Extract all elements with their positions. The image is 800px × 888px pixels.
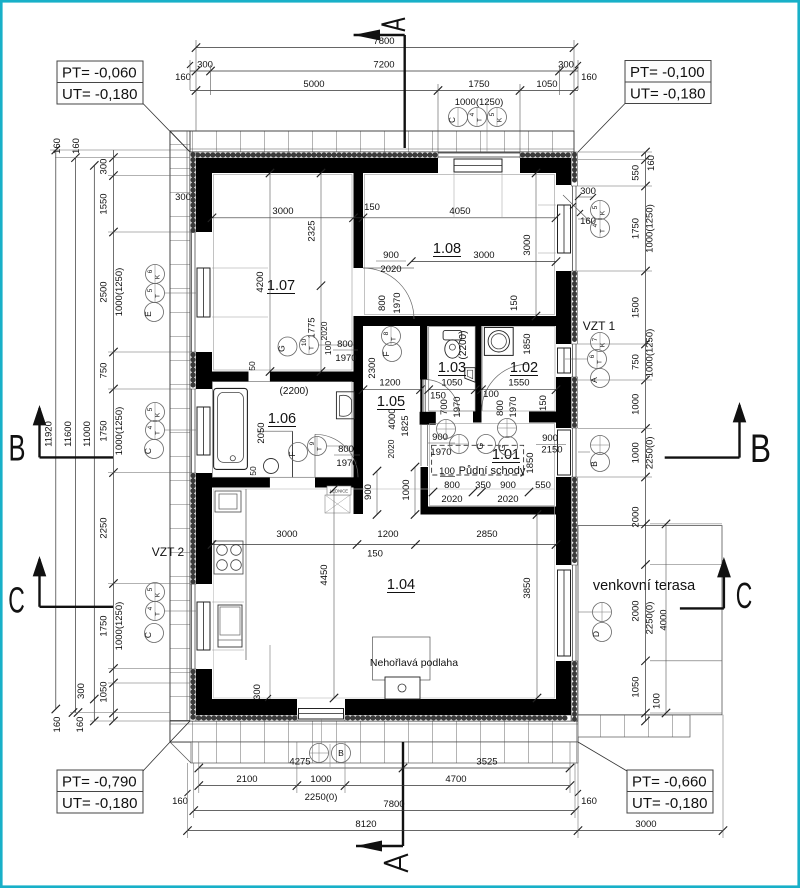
svg-text:4000: 4000 xyxy=(659,609,670,630)
svg-text:7800: 7800 xyxy=(383,799,404,810)
svg-text:T: T xyxy=(309,346,316,350)
interior wall 1.03/1.02 bottom middle stub xyxy=(473,412,482,423)
svg-text:160: 160 xyxy=(172,796,188,807)
marker circles terrace D group xyxy=(593,603,612,622)
svg-text:150: 150 xyxy=(364,202,380,213)
svg-text:800: 800 xyxy=(495,400,506,416)
svg-text:E: E xyxy=(143,311,153,317)
svg-text:PT= -0,060: PT= -0,060 xyxy=(62,65,137,82)
dimension line bottom 8120 xyxy=(188,830,579,832)
svg-text:1200: 1200 xyxy=(377,529,398,540)
room finish outline 1.06 bathroom xyxy=(213,382,353,478)
svg-text:1825: 1825 xyxy=(400,415,411,436)
interior wall 1.07/1.08 vertical lower xyxy=(354,319,364,514)
svg-text:100: 100 xyxy=(323,341,333,355)
dimension bottom right 3000 xyxy=(578,830,723,832)
svg-text:300: 300 xyxy=(76,683,87,699)
lednice label box xyxy=(327,486,351,495)
svg-text:160: 160 xyxy=(71,138,82,154)
svg-text:1500: 1500 xyxy=(631,297,642,318)
svg-text:800: 800 xyxy=(337,339,353,350)
svg-text:K: K xyxy=(155,592,162,597)
marker circles room 1.01 xyxy=(437,420,456,439)
svg-text:2020: 2020 xyxy=(319,321,329,340)
svg-text:4275: 4275 xyxy=(289,757,310,768)
svg-text:4: 4 xyxy=(469,112,476,116)
exterior wall top-right segment xyxy=(520,158,571,173)
room finish outline 1.04 xyxy=(214,489,555,698)
svg-text:2250(0): 2250(0) xyxy=(645,602,656,635)
svg-text:700: 700 xyxy=(439,399,450,415)
svg-text:1550: 1550 xyxy=(99,193,110,214)
svg-text:F: F xyxy=(381,351,391,356)
svg-text:8: 8 xyxy=(383,331,390,335)
insulation hatch bottom xyxy=(196,715,297,721)
svg-text:2020: 2020 xyxy=(386,439,396,458)
svg-text:300: 300 xyxy=(175,192,191,203)
marker circles top window C 4T 5K xyxy=(449,108,468,127)
svg-text:1000: 1000 xyxy=(310,774,331,785)
svg-text:800: 800 xyxy=(338,444,354,455)
svg-text:2150: 2150 xyxy=(541,445,562,456)
dim vertical 4200 room 1.07 xyxy=(269,173,271,372)
svg-text:1050: 1050 xyxy=(99,681,110,702)
window jamb extension lines top window xyxy=(453,173,455,217)
svg-text:2000: 2000 xyxy=(631,600,642,621)
insulation hatch left xyxy=(190,152,196,232)
marker circles right B group xyxy=(591,436,610,455)
svg-text:1970: 1970 xyxy=(335,353,356,364)
svg-text:160: 160 xyxy=(175,72,191,83)
exterior wall right segment 2 xyxy=(556,377,571,428)
svg-text:1000: 1000 xyxy=(631,394,642,415)
svg-text:350: 350 xyxy=(475,480,491,491)
corner miter top-left xyxy=(170,131,190,152)
svg-text:1970: 1970 xyxy=(508,396,519,417)
dim 1000 vertical corridor bottom xyxy=(414,467,416,515)
dim 1050 room 1.03 xyxy=(429,389,476,391)
svg-text:T: T xyxy=(317,447,324,451)
marker circles left kitchen window C group xyxy=(146,583,165,602)
svg-text:A: A xyxy=(589,377,599,383)
svg-text:D: D xyxy=(591,631,601,637)
svg-text:160: 160 xyxy=(75,717,86,733)
terrace outline xyxy=(578,526,722,715)
interior wall 1.07/1.08 vertical upper xyxy=(354,173,364,268)
interior wall bathroom bottom left part xyxy=(211,477,270,487)
svg-text:2250: 2250 xyxy=(99,517,110,538)
svg-text:1850: 1850 xyxy=(525,452,536,473)
svg-text:160: 160 xyxy=(581,72,597,83)
svg-text:1000: 1000 xyxy=(401,479,412,500)
svg-text:G: G xyxy=(475,443,485,450)
svg-text:5: 5 xyxy=(147,288,154,292)
dim line kitchen 3000-1200-2850 xyxy=(212,544,556,546)
svg-text:2020: 2020 xyxy=(380,264,401,275)
brick veneer band bottom xyxy=(170,721,578,742)
svg-text:VZT 2: VZT 2 xyxy=(152,545,185,559)
svg-text:1050: 1050 xyxy=(536,79,557,90)
svg-text:900: 900 xyxy=(500,480,516,491)
section mark C right xyxy=(680,607,724,609)
marker circles right window 5K 4T xyxy=(591,201,610,220)
svg-text:T: T xyxy=(597,360,604,364)
marker circles right 7K 6T A xyxy=(591,333,610,352)
fridge appliance xyxy=(218,605,242,647)
dim vertical 3000 room 1.08 xyxy=(535,173,537,316)
svg-text:C: C xyxy=(448,117,457,123)
interior wall 1.01 bottom horizontal xyxy=(428,507,556,515)
brick veneer band top xyxy=(170,131,574,152)
svg-text:5: 5 xyxy=(489,112,496,116)
svg-text:160: 160 xyxy=(52,717,63,733)
svg-text:900: 900 xyxy=(363,484,374,500)
dimension chain right detailed xyxy=(645,152,647,721)
dimension line bottom 4275-3525 xyxy=(199,767,570,769)
door arc 1.01 to 1.02 xyxy=(482,364,530,412)
room finish outline 1.08 xyxy=(365,175,555,315)
svg-text:1970: 1970 xyxy=(430,447,451,458)
svg-text:100: 100 xyxy=(652,693,663,709)
exterior wall top-left segment xyxy=(196,158,438,173)
kitchen sink xyxy=(215,491,241,512)
svg-text:2020: 2020 xyxy=(441,494,462,505)
interior wall bathroom bottom right part xyxy=(315,477,354,487)
extension lines right xyxy=(578,151,652,153)
svg-text:800: 800 xyxy=(444,480,460,491)
svg-text:4000: 4000 xyxy=(387,408,398,429)
svg-text:2000: 2000 xyxy=(631,506,642,527)
svg-text:2500: 2500 xyxy=(99,281,110,302)
svg-text:T: T xyxy=(155,294,162,298)
svg-text:(2200): (2200) xyxy=(280,386,309,397)
svg-text:T: T xyxy=(155,431,162,435)
svg-text:F: F xyxy=(287,451,297,456)
svg-text:3000: 3000 xyxy=(635,819,656,830)
svg-text:2250(0): 2250(0) xyxy=(305,792,338,803)
svg-text:4700: 4700 xyxy=(445,774,466,785)
svg-text:1750: 1750 xyxy=(631,218,642,239)
svg-text:750: 750 xyxy=(631,354,642,370)
svg-text:VZT 1: VZT 1 xyxy=(583,319,616,333)
svg-text:K: K xyxy=(600,210,607,215)
attic stair dashed rectangle xyxy=(432,445,524,475)
svg-text:3000: 3000 xyxy=(272,206,293,217)
dimension line top 5000-1750-1050 xyxy=(190,90,578,92)
svg-text:100: 100 xyxy=(439,466,455,477)
svg-text:venkovní terasa: venkovní terasa xyxy=(593,578,696,594)
svg-text:1550: 1550 xyxy=(508,378,529,389)
kitchen counter edge xyxy=(245,489,247,660)
exterior wall left segment 4 xyxy=(196,669,212,715)
svg-text:C: C xyxy=(143,448,153,454)
fireplace floor rectangle xyxy=(373,637,431,680)
dimension line bottom 7800 xyxy=(194,810,575,812)
svg-text:10: 10 xyxy=(301,339,308,347)
svg-text:4050: 4050 xyxy=(449,206,470,217)
svg-text:1.03: 1.03 xyxy=(438,360,466,376)
interior wall 1.03 left vertical xyxy=(420,316,427,380)
svg-text:1.05: 1.05 xyxy=(377,394,405,410)
svg-text:3850: 3850 xyxy=(522,577,533,598)
svg-text:160: 160 xyxy=(581,796,597,807)
svg-text:300: 300 xyxy=(580,186,596,197)
svg-text:550: 550 xyxy=(535,480,551,491)
svg-text:B: B xyxy=(338,748,344,758)
svg-text:PT= -0,660: PT= -0,660 xyxy=(632,774,707,791)
svg-text:900: 900 xyxy=(383,250,399,261)
interior wall 1.03 bottom stub xyxy=(420,412,436,425)
svg-text:50: 50 xyxy=(248,466,258,476)
svg-text:900: 900 xyxy=(542,433,558,444)
level box bottom-right PT/UT xyxy=(627,770,713,792)
svg-text:K: K xyxy=(600,342,607,347)
marker circles F 8T corridor xyxy=(382,327,401,346)
svg-text:K: K xyxy=(155,412,162,417)
door opening 1.05 to 1.01 xyxy=(420,424,422,466)
interior wall 1.02 bottom right xyxy=(529,412,556,423)
interior wall bathroom top right part xyxy=(270,372,354,383)
dim line room 1.07/1.08 tops xyxy=(212,217,556,219)
svg-text:9: 9 xyxy=(309,441,316,445)
svg-text:UT= -0,180: UT= -0,180 xyxy=(630,86,705,103)
exterior wall right segment 1 xyxy=(556,271,571,344)
svg-text:7: 7 xyxy=(592,337,599,341)
svg-text:PT= -0,790: PT= -0,790 xyxy=(62,774,137,791)
dim 1200 corridor xyxy=(363,389,421,391)
svg-text:K: K xyxy=(155,274,162,279)
door arc bathroom 1.06 xyxy=(315,434,358,477)
svg-text:1850: 1850 xyxy=(522,333,533,354)
svg-text:1050: 1050 xyxy=(441,378,462,389)
svg-text:5000: 5000 xyxy=(303,79,324,90)
svg-text:2020: 2020 xyxy=(497,494,518,505)
svg-text:3525: 3525 xyxy=(476,757,497,768)
door arc 1.01 to 1.03 xyxy=(425,380,460,415)
dimension chain 11600 left xyxy=(75,158,77,713)
door arc 1.07 to 1.08 area xyxy=(363,268,414,319)
apron band below bottom wall xyxy=(191,742,578,763)
svg-text:6: 6 xyxy=(589,354,596,358)
toilet 1.03 xyxy=(443,331,462,340)
svg-text:2050: 2050 xyxy=(256,422,267,443)
stool circle bathroom xyxy=(264,459,279,474)
svg-text:1750: 1750 xyxy=(468,79,489,90)
room finish outline 1.07 xyxy=(214,175,353,371)
entrance door bottom wall (1000) xyxy=(299,709,344,720)
svg-text:1000(1250): 1000(1250) xyxy=(114,268,125,317)
marker circles left bathroom window C group xyxy=(146,403,165,422)
section mark A top xyxy=(354,34,405,36)
dimension chain 11920 left xyxy=(55,150,57,709)
dimension chain 11000 left xyxy=(93,165,95,721)
level box top-right PT/UT xyxy=(625,61,711,83)
exterior wall left segment 1 xyxy=(196,158,212,232)
svg-text:4: 4 xyxy=(147,606,154,610)
dim line 3000 room 1.08 lower xyxy=(411,261,556,263)
window jamb extension lines right window 1.08 xyxy=(538,204,556,206)
svg-text:5: 5 xyxy=(147,587,154,591)
exterior wall left segment 2 xyxy=(196,352,212,389)
svg-text:150: 150 xyxy=(367,549,383,560)
svg-text:B: B xyxy=(750,427,771,471)
window jamb extension lines left window 1.07 xyxy=(212,267,268,269)
svg-text:4200: 4200 xyxy=(255,271,266,292)
svg-text:C: C xyxy=(143,632,153,638)
interior wall 1.03/1.02 vertical xyxy=(475,322,482,412)
svg-text:800: 800 xyxy=(377,295,388,311)
svg-text:B: B xyxy=(589,461,599,467)
dim 1550 room 1.02 xyxy=(482,389,557,391)
window W4 right wall (1000/1250) xyxy=(572,186,574,271)
svg-text:T: T xyxy=(600,229,607,233)
exterior wall left segment 3 xyxy=(196,473,212,584)
svg-text:1000(1250): 1000(1250) xyxy=(645,329,656,378)
svg-text:2100: 2100 xyxy=(236,774,257,785)
dim vertical 4450 room 1.04 xyxy=(333,489,335,698)
marker circles left window E group xyxy=(146,265,165,284)
svg-text:1000(1250): 1000(1250) xyxy=(114,407,125,456)
svg-text:1970: 1970 xyxy=(336,458,357,469)
svg-text:150: 150 xyxy=(509,295,520,311)
dim vertical 3850 room 1.04 right xyxy=(536,515,538,699)
svg-text:(2200): (2200) xyxy=(458,331,469,360)
svg-text:1.04: 1.04 xyxy=(387,577,415,593)
svg-text:3000: 3000 xyxy=(522,234,533,255)
exterior wall right segment 4 xyxy=(556,661,571,715)
svg-text:5: 5 xyxy=(592,205,599,209)
svg-text:2250(0): 2250(0) xyxy=(645,436,656,469)
dimension line top 300-7200-300 xyxy=(190,70,578,72)
washing machine 1.02 xyxy=(484,328,513,356)
cooktop 4 rings xyxy=(214,541,243,574)
svg-text:PT= -0,100: PT= -0,100 xyxy=(630,64,705,81)
svg-text:T: T xyxy=(391,337,398,341)
room finish outline 1.02 xyxy=(483,327,556,412)
svg-text:750: 750 xyxy=(99,363,110,379)
svg-text:11600: 11600 xyxy=(63,421,74,447)
svg-text:1970: 1970 xyxy=(452,396,463,417)
svg-text:Nehořlavá podlaha: Nehořlavá podlaha xyxy=(370,657,458,669)
svg-text:3000: 3000 xyxy=(276,529,297,540)
svg-text:1.06: 1.06 xyxy=(268,411,296,427)
room finish outline 1.03 wc xyxy=(429,327,476,412)
dimension line bottom 2100-1000-4700 xyxy=(199,785,570,787)
level box top-left PT/UT xyxy=(57,61,143,83)
window W2 left wall bathroom xyxy=(191,389,193,473)
svg-text:K: K xyxy=(497,117,504,122)
svg-text:1050: 1050 xyxy=(631,676,642,697)
svg-text:B: B xyxy=(9,428,26,469)
shower partition line xyxy=(292,431,294,477)
marker circles bottom B group xyxy=(310,744,329,763)
window W3 left wall kitchen xyxy=(191,584,193,669)
svg-text:C: C xyxy=(8,580,25,621)
svg-text:100: 100 xyxy=(483,389,499,400)
right 4000 dim line xyxy=(665,524,667,713)
svg-text:1.02: 1.02 xyxy=(510,360,538,376)
dim 2850 terrace vertical xyxy=(529,515,531,699)
level box bottom-left PT/UT xyxy=(57,770,143,792)
door D1 right wall to outside xyxy=(572,428,574,477)
terrace edging band xyxy=(578,715,690,737)
svg-text:1750: 1750 xyxy=(99,615,110,636)
svg-text:300: 300 xyxy=(99,159,110,175)
sliding door D2 right wall to terrace (2000) xyxy=(572,565,574,661)
extension lines top xyxy=(195,40,197,131)
insulation hatch right xyxy=(572,152,578,186)
svg-text:G: G xyxy=(277,345,287,352)
fridge niche cross box xyxy=(325,495,350,513)
svg-text:G: G xyxy=(497,445,507,452)
svg-text:11000: 11000 xyxy=(82,421,93,447)
section mark B left xyxy=(40,456,114,458)
window W5 right wall xyxy=(572,344,574,377)
svg-text:1.07: 1.07 xyxy=(267,278,295,294)
svg-text:2325: 2325 xyxy=(307,220,318,241)
exterior wall top-right corner block xyxy=(556,158,571,185)
svg-text:550: 550 xyxy=(631,165,642,181)
svg-text:1000: 1000 xyxy=(631,442,642,463)
svg-text:5: 5 xyxy=(147,407,154,411)
svg-text:2300: 2300 xyxy=(367,357,378,378)
svg-text:T: T xyxy=(477,118,484,122)
interior wall bathroom top left part xyxy=(211,372,248,383)
svg-text:160: 160 xyxy=(646,155,657,171)
section mark C left xyxy=(40,606,114,608)
svg-text:Půdní schody: Půdní schody xyxy=(459,465,526,477)
extension lines bottom xyxy=(187,763,189,838)
corner miter bottom-left xyxy=(170,721,190,742)
svg-text:UT= -0,180: UT= -0,180 xyxy=(62,795,137,812)
svg-text:4450: 4450 xyxy=(319,564,330,585)
svg-text:UT= -0,180: UT= -0,180 xyxy=(62,86,137,103)
svg-text:7200: 7200 xyxy=(373,60,394,71)
insulation hatch top xyxy=(190,152,438,158)
svg-text:160: 160 xyxy=(52,138,63,154)
section mark B right xyxy=(665,456,740,458)
corner sink 1.03 xyxy=(465,368,475,383)
svg-text:UT= -0,180: UT= -0,180 xyxy=(632,795,707,812)
brick veneer band left xyxy=(170,131,190,742)
room finish outline 1.01 xyxy=(430,424,555,506)
marker circles G 10T room 1.07 xyxy=(278,337,297,356)
svg-text:8120: 8120 xyxy=(355,819,376,830)
svg-text:1.08: 1.08 xyxy=(433,241,461,257)
svg-text:300: 300 xyxy=(558,60,574,71)
svg-text:C: C xyxy=(736,575,753,616)
svg-text:6: 6 xyxy=(147,269,154,273)
dimension line top 7800 xyxy=(196,47,574,49)
svg-text:900: 900 xyxy=(432,432,448,443)
door leaf 1.03 along wall xyxy=(420,380,422,422)
window jamb extension lines kitchen window xyxy=(212,601,244,603)
svg-text:150: 150 xyxy=(538,395,549,411)
window/door in top wall (1750,1000/1250) xyxy=(438,152,520,154)
bathtub xyxy=(214,388,248,469)
interior wall horizontal y316 (1.08 bottom) xyxy=(354,316,557,326)
svg-text:4: 4 xyxy=(592,223,599,227)
extension lines left xyxy=(108,157,190,159)
washbasin bathroom xyxy=(336,392,354,419)
svg-text:T: T xyxy=(155,612,162,616)
svg-text:1000(1250): 1000(1250) xyxy=(455,97,504,108)
svg-text:1000(1250): 1000(1250) xyxy=(114,602,125,651)
svg-text:1000(1250): 1000(1250) xyxy=(645,204,656,253)
svg-text:3000: 3000 xyxy=(473,250,494,261)
marker circles F 9T bathroom door xyxy=(289,443,308,462)
svg-text:50: 50 xyxy=(247,361,257,371)
